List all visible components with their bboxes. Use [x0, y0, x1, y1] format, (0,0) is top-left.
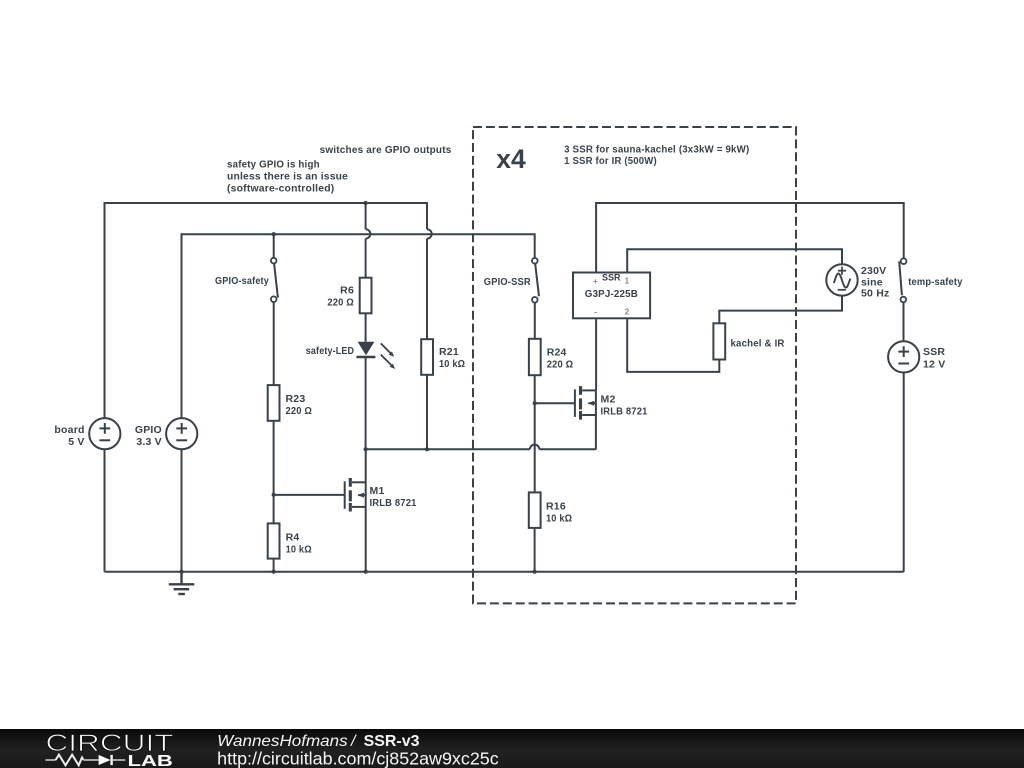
- svg-text:LAB: LAB: [128, 753, 173, 768]
- svg-text:(software-controlled): (software-controlled): [227, 182, 334, 194]
- svg-text:safety-LED: safety-LED: [306, 345, 354, 357]
- wire M2 gate lead: [535, 402, 575, 404]
- svg-text:10 kΩ: 10 kΩ: [439, 358, 465, 370]
- svg-text:1 SSR for IR (500W): 1 SSR for IR (500W): [564, 155, 657, 167]
- wire R16 bottom lead: [534, 528, 536, 572]
- wire GPIO 3.3V horizontal rail y=234: [182, 234, 535, 418]
- wire drain row y=449 to M2 source: [366, 448, 530, 450]
- svg-text:IRLB 8721: IRLB 8721: [370, 497, 417, 509]
- wire SSR - pin down to M2 drain: [595, 318, 597, 390]
- svg-text:1: 1: [625, 276, 630, 286]
- relay U1 SSR G3PJ-225B box: [573, 273, 650, 319]
- svg-text:GPIO: GPIO: [135, 424, 162, 436]
- wire R21 bottom lead: [426, 375, 428, 450]
- svg-text:unless there is an issue: unless there is an issue: [227, 170, 348, 182]
- svg-text:board: board: [54, 424, 84, 436]
- wire top-left net from board 5V to R21 column: [105, 203, 428, 418]
- svg-text:kachel & IR: kachel & IR: [731, 338, 785, 350]
- wire hop of y=449 row over R16 column: [530, 445, 539, 450]
- node junction LED/M1 drain: [364, 447, 368, 451]
- svg-text:R24: R24: [547, 347, 567, 359]
- svg-text:12 V: 12 V: [923, 358, 945, 370]
- node junction R4 bottom: [272, 570, 276, 574]
- resistor R23 body: [268, 385, 280, 421]
- wire SSR 12V bottom lead: [903, 373, 905, 572]
- svg-text:GPIO-SSR: GPIO-SSR: [484, 276, 531, 288]
- svg-text:220 Ω: 220 Ω: [327, 297, 354, 309]
- svg-text:IRLB 8721: IRLB 8721: [601, 406, 648, 418]
- svg-text:10 kΩ: 10 kΩ: [286, 543, 312, 555]
- node junction M1 source: [364, 570, 368, 574]
- switch GPIO-SSR: [532, 258, 539, 339]
- source 230V sine 50Hz: [826, 264, 857, 295]
- svg-text:50 Hz: 50 Hz: [861, 288, 889, 300]
- wire SSR pin1 to 230V source top: [627, 249, 842, 272]
- node junction R16 bottom: [533, 570, 537, 574]
- resistor R24 body: [529, 339, 541, 375]
- node junction GPIO-safety switch on rail: [272, 232, 276, 236]
- node junction M1 gate tap: [272, 493, 276, 497]
- dashed expansion box x4: [473, 127, 796, 603]
- svg-text:230V: 230V: [861, 265, 886, 277]
- svg-text:WannesHofmans: WannesHofmans: [217, 733, 348, 750]
- wire R4 bottom lead: [273, 559, 275, 572]
- svg-text:R23: R23: [286, 393, 306, 405]
- wire y=449 row right part: [539, 448, 596, 450]
- svg-text:SSR: SSR: [923, 346, 945, 358]
- resistor R16 body: [529, 492, 541, 528]
- wire R6 upper lead: [365, 203, 367, 229]
- logo resistor-diode symbol: [46, 755, 126, 766]
- resistor R6 body: [360, 278, 372, 314]
- transistor M2 IRLB 8721: [575, 386, 596, 449]
- voltage source SSR 12V: [888, 341, 919, 372]
- svg-text:R6: R6: [340, 285, 354, 297]
- svg-text:R21: R21: [439, 346, 459, 358]
- ground symbol: [169, 572, 195, 594]
- svg-text:220 Ω: 220 Ω: [547, 359, 574, 371]
- svg-text:temp-safety: temp-safety: [908, 276, 962, 288]
- voltage source board 5V: [89, 418, 120, 449]
- svg-text:M1: M1: [370, 485, 385, 497]
- svg-text:R16: R16: [546, 501, 566, 513]
- wire R24 to R16: [534, 375, 536, 492]
- svg-text:-: -: [594, 307, 597, 317]
- svg-text:M2: M2: [601, 394, 616, 406]
- wire bottom ground rail: [105, 571, 904, 573]
- wire hop of R21 column over y=234 wire: [427, 229, 432, 238]
- wire LED down to node row y=449: [365, 357, 367, 449]
- svg-text:x4: x4: [496, 144, 526, 174]
- svg-text:5 V: 5 V: [68, 436, 84, 448]
- wire board 5V bottom lead: [104, 449, 106, 571]
- wire R6 lead down to resistor: [365, 239, 367, 278]
- wire M1 gate lead: [274, 494, 345, 496]
- wire SSR pin2 to kachel resistor bottom: [627, 318, 719, 372]
- node junction at R6 top on 5V wire: [364, 201, 368, 205]
- resistor kachel & IR body: [713, 323, 725, 359]
- switch GPIO-safety: [271, 234, 278, 385]
- transistor M1 IRLB 8721: [345, 449, 366, 571]
- node junction M2 gate tap: [533, 401, 537, 405]
- wire hop of R6 column over y=234 wire: [366, 229, 371, 238]
- svg-text:G3PJ-225B: G3PJ-225B: [585, 288, 638, 300]
- svg-text:2: 2: [625, 306, 630, 316]
- node junction R21 bottom: [425, 447, 429, 451]
- svg-text:http://circuitlab.com/cj852aw9: http://circuitlab.com/cj852aw9xc25c: [217, 749, 499, 768]
- svg-text:safety GPIO is high: safety GPIO is high: [227, 158, 320, 170]
- wire 230V bottom to kachel resistor top: [719, 296, 842, 324]
- resistor R4 body: [268, 523, 280, 558]
- svg-text:SSR-v3: SSR-v3: [364, 733, 420, 750]
- svg-text:sine: sine: [861, 276, 883, 288]
- svg-text:10 kΩ: 10 kΩ: [546, 513, 572, 525]
- wire R21 column lower lead: [426, 239, 428, 340]
- svg-text:+: +: [593, 276, 598, 286]
- LED safety-LED: [356, 342, 395, 369]
- svg-text:switches are GPIO outputs: switches are GPIO outputs: [320, 144, 452, 156]
- svg-text:GPIO-safety: GPIO-safety: [215, 275, 269, 287]
- wire R6 to LED: [365, 313, 367, 341]
- svg-text:R4: R4: [286, 531, 300, 543]
- svg-text:220 Ω: 220 Ω: [286, 405, 313, 417]
- svg-text:3.3 V: 3.3 V: [136, 436, 162, 448]
- wire SSR + pin up to top-right rail: [596, 203, 904, 273]
- resistor R21 body: [421, 339, 433, 375]
- voltage source GPIO 3.3V: [166, 418, 197, 449]
- svg-text:SSR: SSR: [602, 272, 621, 283]
- wire GPIO 3.3V bottom lead: [181, 449, 183, 571]
- wire R23 to R4: [273, 421, 275, 524]
- node junction ground tap: [179, 570, 183, 574]
- svg-text:3 SSR for sauna-kachel (3x3kW: 3 SSR for sauna-kachel (3x3kW = 9kW): [564, 143, 749, 155]
- switch temp-safety: [899, 258, 906, 341]
